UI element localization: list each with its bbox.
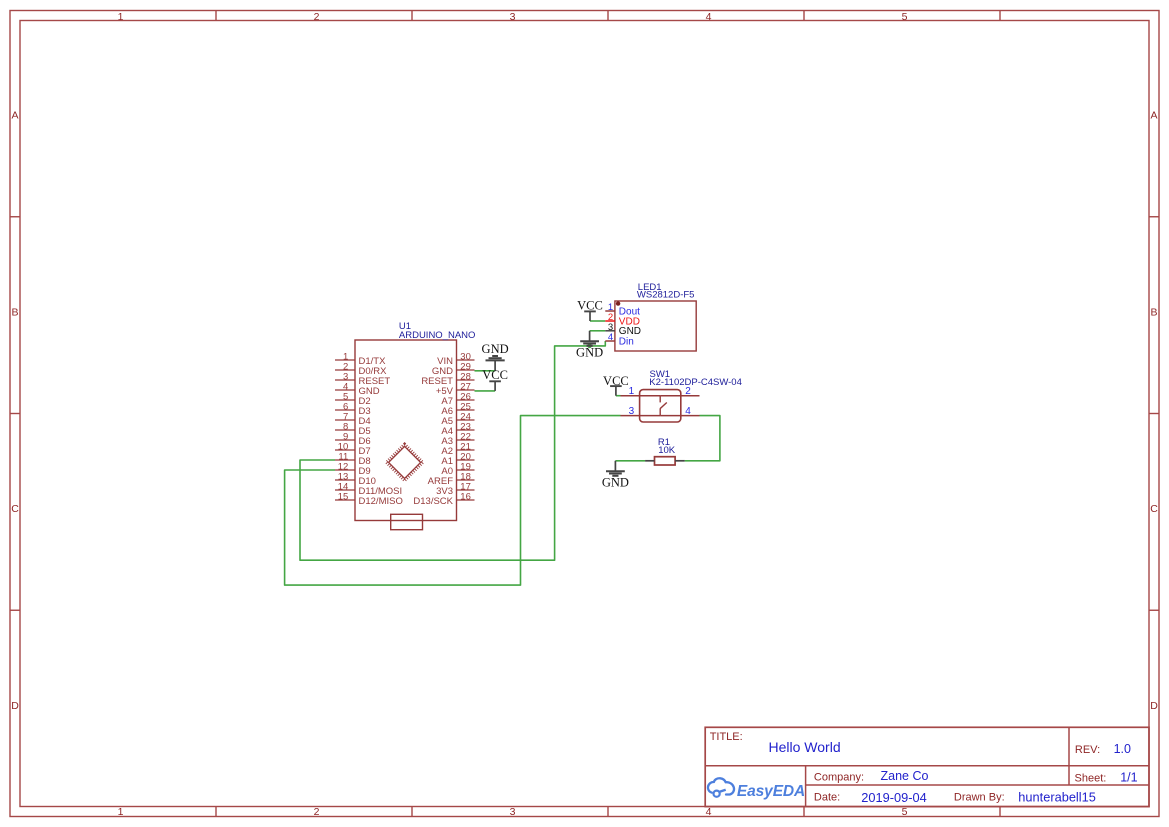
junction dot on Din wire	[587, 344, 591, 348]
LED LED1 WS2812D-F5 body	[615, 301, 696, 351]
svg-text:GND: GND	[482, 342, 509, 356]
svg-text:A: A	[11, 110, 18, 122]
R1 pin 1	[645, 460, 654, 462]
IC U1 ARDUINO_NANO	[355, 340, 457, 521]
svg-text:2: 2	[314, 806, 320, 818]
svg-text:Drawn By:: Drawn By:	[954, 792, 1005, 804]
svg-text:C: C	[11, 503, 19, 515]
wire R1 left to ground	[615, 460, 645, 462]
svg-text:C: C	[1150, 503, 1158, 515]
wire VCC to LED1 pin2 VDD	[590, 320, 605, 322]
svg-text:Hello World: Hello World	[769, 739, 841, 755]
U1 pin 19 A0	[441, 462, 474, 477]
svg-text:K2-1102DP-C4SW-04: K2-1102DP-C4SW-04	[649, 377, 742, 388]
svg-text:ARDUINO_NANO: ARDUINO_NANO	[399, 330, 476, 341]
U1 pin 5 D2	[335, 392, 371, 407]
svg-text:REV:: REV:	[1075, 744, 1100, 756]
svg-text:1: 1	[118, 806, 124, 818]
wire LED1 pin3 GND to ground	[590, 330, 606, 332]
U1 pin 29 GND	[432, 362, 475, 377]
U1 pin 14 D11/MOSI	[335, 482, 402, 497]
U1 pin 17 3V3	[436, 482, 474, 497]
wire LED1 pin4 Din to U1 pin11 D8	[300, 341, 605, 560]
power symbol VCC at LED1	[577, 298, 603, 321]
ruler row letters	[11, 110, 1158, 712]
svg-text:2019-09-04: 2019-09-04	[861, 790, 926, 805]
svg-text:D: D	[1150, 700, 1158, 712]
ground symbol GND at U1 pin29 (flipped)	[482, 342, 509, 371]
svg-text:5: 5	[902, 11, 908, 23]
svg-text:D: D	[11, 700, 19, 712]
LED1 pin 1 Dout	[605, 302, 640, 317]
U1 pin 24 A5	[441, 412, 474, 427]
SW1 pin 3	[621, 406, 661, 417]
ground symbol GND at LED1	[576, 331, 603, 360]
U1 pin 21 A2	[441, 442, 474, 457]
wire VCC to SW1 pin1	[616, 395, 621, 397]
wire U1 pin12 D9 to SW1 pin3	[285, 416, 621, 585]
svg-text:B: B	[1150, 306, 1157, 318]
EasyEDA logo cloud	[708, 778, 734, 797]
svg-text:4: 4	[685, 406, 691, 417]
title block frame	[705, 727, 1149, 806]
svg-text:GND: GND	[576, 346, 603, 360]
svg-text:3: 3	[510, 806, 516, 818]
svg-text:hunterabell15: hunterabell15	[1018, 790, 1096, 805]
svg-text:5: 5	[902, 806, 908, 818]
U1 pin 15 D12/MISO	[335, 492, 403, 507]
svg-text:VCC: VCC	[603, 374, 629, 388]
resistor R1 body	[655, 457, 676, 465]
svg-text:WS2812D-F5: WS2812D-F5	[637, 290, 695, 301]
U1 pin 23 A4	[441, 422, 474, 437]
U1 pin 22 A3	[441, 432, 474, 447]
U1 pin 3 RESET	[335, 372, 390, 387]
LED1 pin 2 VDD	[605, 312, 640, 327]
switch SW1 body	[640, 390, 681, 422]
U1 pin 6 D3	[335, 402, 371, 417]
U1 USB connector rectangle	[391, 514, 423, 529]
svg-text:B: B	[11, 306, 18, 318]
U1 pin 26 A7	[441, 392, 474, 407]
SW1 switch contact symbol	[660, 396, 667, 416]
svg-text:Zane Co: Zane Co	[881, 769, 929, 783]
svg-text:Company:: Company:	[814, 771, 864, 783]
svg-text:D12/MISO: D12/MISO	[359, 496, 403, 507]
svg-text:4: 4	[608, 332, 613, 343]
power symbol VCC at U1 pin27	[482, 368, 508, 391]
U1 pin 30 VIN	[437, 352, 474, 367]
LED1 pin 3 GND	[605, 322, 641, 337]
svg-text:15: 15	[338, 492, 349, 503]
svg-text:VCC: VCC	[577, 298, 603, 312]
svg-text:4: 4	[706, 11, 712, 23]
svg-text:VCC: VCC	[482, 368, 508, 382]
power symbol VCC at SW1	[603, 374, 629, 396]
U1 pin 2 D0/RX	[335, 362, 387, 377]
svg-text:1: 1	[629, 386, 635, 397]
U1 pin 12 D9	[335, 462, 371, 477]
svg-text:GND: GND	[602, 476, 629, 490]
ground symbol GND at R1	[602, 461, 629, 490]
U1 pin 27 +5V	[436, 382, 475, 397]
U1 chip diamond glyph	[386, 444, 423, 481]
svg-text:2: 2	[314, 11, 320, 23]
U1 pin 8 D5	[335, 422, 371, 437]
U1 pin 25 A6	[441, 402, 474, 417]
R1 pin 2	[675, 460, 685, 462]
svg-text:A: A	[1150, 110, 1157, 122]
svg-text:2: 2	[685, 386, 691, 397]
SW1 pin 1	[621, 386, 661, 397]
U1 pin 9 D6	[335, 432, 371, 447]
U1 pin 16 D13/SCK	[413, 492, 474, 507]
U1 pin 18 AREF	[428, 472, 475, 487]
svg-text:3: 3	[629, 406, 635, 417]
SW1 pin 4	[660, 406, 699, 417]
svg-text:1/1: 1/1	[1120, 771, 1137, 785]
svg-text:4: 4	[706, 806, 712, 818]
svg-text:16: 16	[460, 492, 471, 503]
svg-text:1: 1	[118, 11, 124, 23]
U1 pin 1 D1/TX	[335, 352, 386, 367]
U1 pin 4 GND	[335, 382, 380, 397]
SW1 pin 2	[660, 386, 699, 397]
U1 pin 20 A1	[441, 452, 474, 467]
svg-text:10K: 10K	[658, 445, 676, 456]
U1 pin 28 RESET	[421, 372, 474, 387]
ruler column numbers	[118, 11, 908, 818]
LED1 pin 4 Din	[605, 332, 634, 347]
svg-text:Din: Din	[619, 336, 634, 347]
U1 pin 11 D8	[335, 452, 371, 467]
U1 pin 10 D7	[335, 442, 371, 457]
svg-text:D13/SCK: D13/SCK	[413, 496, 453, 507]
U1 pin 13 D10	[335, 472, 376, 487]
U1 pin 7 D4	[335, 412, 371, 427]
svg-text:Date:: Date:	[814, 792, 840, 804]
wire U1 pin29 GND to ground	[475, 370, 496, 372]
wire U1 pin27 +5V to VCC	[475, 390, 496, 392]
wire SW1 pin4 to R1 right	[685, 416, 720, 461]
svg-text:3: 3	[510, 11, 516, 23]
svg-text:TITLE:: TITLE:	[710, 731, 743, 743]
svg-text:Sheet:: Sheet:	[1075, 773, 1107, 785]
svg-text:EasyEDA: EasyEDA	[737, 783, 805, 800]
svg-text:1.0: 1.0	[1114, 742, 1131, 756]
